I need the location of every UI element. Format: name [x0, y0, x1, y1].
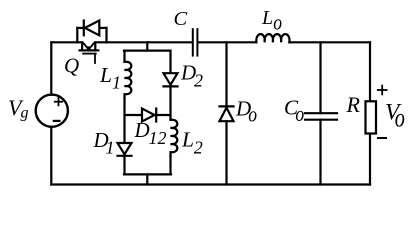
label L1 — [99, 63, 121, 92]
label D2 — [180, 61, 203, 91]
diode D12 triangle — [142, 109, 155, 122]
capacitor C left plate — [192, 29, 194, 55]
wire left rail lower — [50, 127, 52, 185]
wire left branch upper stub — [123, 51, 125, 62]
wire Do branch lower — [225, 121, 227, 184]
capacitor Co top plate — [305, 112, 337, 114]
transistor Q arrowhead — [86, 46, 91, 50]
capacitor C right plate — [196, 29, 198, 55]
wire top rail segment C to Lo — [198, 41, 256, 43]
label Do — [235, 97, 257, 127]
diode Do cathode bar — [220, 105, 234, 107]
antiparallel diode triangle — [85, 21, 100, 36]
Vo minus sign — [378, 137, 386, 139]
wire Co branch lower — [319, 120, 321, 185]
wire bottom bar of cell — [124, 173, 171, 175]
diode D2 cathode bar — [164, 85, 178, 87]
svg-text:1: 1 — [106, 138, 115, 158]
diode Do triangle — [220, 108, 234, 122]
wire top rail right segment — [289, 41, 370, 43]
svg-text:C: C — [174, 8, 188, 30]
node bottom stub — [146, 174, 148, 184]
wire top rail left segment — [51, 41, 82, 43]
diode D12 cathode wire — [156, 114, 170, 116]
inductor L2 coil — [171, 120, 178, 156]
svg-text:o: o — [273, 11, 282, 35]
Vg plus sign — [55, 98, 62, 105]
wire right branch lower — [169, 156, 171, 174]
label Vo — [385, 99, 405, 133]
transistor Q antiparallel diode loop left leg — [76, 28, 78, 42]
diode D2 triangle — [164, 73, 178, 85]
svg-text:L: L — [181, 127, 194, 151]
svg-text:g: g — [21, 105, 29, 122]
wire diode loop top right — [99, 27, 106, 29]
svg-text:o: o — [248, 103, 257, 127]
transistor Q arrow left diagonal — [84, 43, 89, 48]
svg-text:R: R — [346, 92, 361, 117]
wire right branch middle — [169, 86, 171, 119]
source Vg — [36, 95, 68, 127]
svg-text:D: D — [134, 118, 150, 142]
svg-text:Q: Q — [64, 54, 79, 78]
antiparallel diode cathode bar — [83, 21, 85, 36]
transistor Q gate bar — [83, 53, 96, 55]
svg-text:1: 1 — [112, 72, 121, 92]
transistor Q gate lead — [94, 54, 96, 63]
svg-text:12: 12 — [149, 128, 167, 148]
wire left rail upper — [50, 42, 52, 95]
label D1 — [93, 128, 115, 158]
transistor Q antiparallel diode loop right leg — [105, 28, 107, 42]
wire Co branch upper — [319, 42, 321, 113]
inductor Lo coil — [256, 34, 289, 42]
resistor R box — [366, 101, 377, 133]
wire Do branch upper — [225, 42, 227, 107]
wire branch bar top — [124, 49, 171, 51]
inductor L1 coil — [125, 62, 132, 98]
wire right rail upper — [369, 42, 371, 101]
wire diode loop top left — [77, 27, 83, 29]
wire right rail lower — [369, 134, 371, 185]
diode D1 cathode bar — [118, 155, 132, 157]
capacitor Co bottom plate — [305, 119, 337, 121]
node T stub top — [146, 42, 148, 50]
label Lo — [261, 7, 282, 35]
diode D1 triangle — [118, 143, 132, 154]
svg-text:o: o — [395, 104, 405, 133]
wire left branch lower — [123, 156, 125, 175]
transistor Q arrow right diagonal — [89, 43, 94, 48]
transistor Q drain stub — [81, 42, 83, 50]
label D12 — [134, 118, 167, 148]
wire top rail middle segment — [95, 41, 192, 43]
svg-text:o: o — [295, 102, 304, 126]
svg-text:L: L — [261, 7, 273, 29]
diode D12 anode wire — [125, 114, 143, 116]
label L2 — [181, 127, 203, 157]
svg-text:2: 2 — [194, 71, 203, 91]
transistor Q channel bar — [80, 49, 99, 51]
label Co — [284, 95, 304, 126]
wire left branch middle — [123, 98, 125, 142]
wire right branch upper — [169, 51, 171, 73]
Vg minus sign — [54, 120, 60, 122]
transistor Q source stub — [94, 42, 96, 50]
svg-text:L: L — [99, 63, 112, 87]
svg-text:2: 2 — [194, 138, 203, 158]
Vo plus sign — [378, 86, 387, 95]
label Vg — [8, 95, 29, 122]
diode D12 cathode bar — [155, 109, 157, 122]
wire bottom rail — [51, 183, 370, 185]
